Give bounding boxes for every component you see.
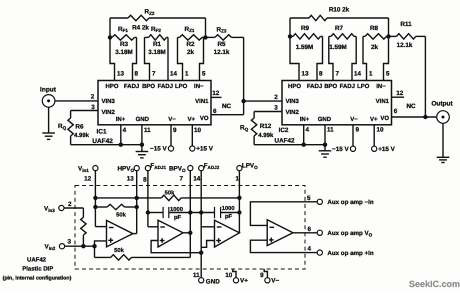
- terminal LPVO pin 1: [237, 166, 242, 171]
- terminal -15V IC1: [168, 146, 173, 151]
- wire internal resistor to Vin2 node: [82, 235, 84, 246]
- resistor R10 2k top feedback: [290, 17, 309, 19]
- svg-text:V+: V+: [370, 116, 378, 123]
- ground output: [437, 156, 450, 158]
- wire R10 loop left vertical: [289, 18, 291, 36]
- node Vin1-A1 feedback junction: [93, 205, 97, 209]
- minus input A4: [270, 226, 275, 228]
- terminal aux minus in pin 5: [317, 199, 322, 204]
- svg-text:4: 4: [306, 126, 310, 133]
- wire junction to IC2 VIN3: [244, 100, 282, 102]
- resistor RZ2 (R4 2k) top feedback wire: [110, 17, 128, 19]
- svg-text:pF: pF: [225, 214, 233, 220]
- ground IC2: [319, 150, 332, 152]
- minus input A1: [109, 227, 114, 229]
- node GND junction op2+: [199, 251, 203, 255]
- wire A2 output stub: [183, 232, 190, 234]
- svg-text:V+: V+: [187, 116, 195, 123]
- svg-text:V+: V+: [240, 277, 248, 284]
- svg-text:Aux op amp −In: Aux op amp −In: [327, 199, 373, 206]
- junction pin 11 rail IC2: [323, 143, 327, 147]
- wire op1 plus to bottom 50k: [94, 246, 96, 257]
- resistor RF2 (R1 3.18M) pins 7-14: [145, 36, 149, 38]
- op-amp A3: [215, 220, 240, 247]
- svg-text:IC2: IC2: [279, 127, 289, 134]
- connector Input BNC: [42, 95, 55, 108]
- op-amp A4 aux: [267, 220, 293, 246]
- wire R6 bottom to IC1 ground rail: [70, 136, 72, 145]
- svg-text:R12: R12: [260, 123, 272, 130]
- terminal +15V IC2: [372, 146, 377, 151]
- resistor internal Vin3: [81, 217, 86, 235]
- wire R10 right vertical: [388, 18, 390, 36]
- node op1 plus junction: [92, 244, 96, 248]
- svg-text:R5: R5: [217, 41, 226, 48]
- svg-text:2k: 2k: [187, 49, 195, 56]
- resistor R9 1.59M pins 13-8 IC2: [290, 35, 293, 37]
- svg-text:R4 2k: R4 2k: [132, 24, 149, 31]
- svg-text:Aux op amp VO: Aux op amp VO: [327, 230, 372, 237]
- plus input A2: [160, 240, 165, 242]
- svg-text:IN−: IN−: [194, 83, 204, 90]
- plus input A3: [216, 240, 221, 242]
- wire pin 11 stub IC2: [324, 125, 326, 145]
- svg-text:1000: 1000: [222, 205, 235, 212]
- svg-text:VIN1: VIN1: [195, 98, 209, 105]
- wire pin 3 to RQ resistor: [71, 110, 98, 112]
- svg-text:pF: pF: [174, 215, 182, 221]
- wire FADJ1 vertical pin 8: [147, 170, 149, 226]
- wire HPVO vertical pin 13: [136, 170, 138, 233]
- svg-text:1000: 1000: [170, 206, 183, 213]
- svg-text:6: 6: [394, 108, 398, 115]
- wire aux output pin 6: [293, 232, 318, 234]
- svg-text:FADJ: FADJ: [124, 83, 139, 90]
- svg-text:11: 11: [193, 272, 200, 279]
- resistor R7 1.59M pins 7-14 IC2: [329, 35, 331, 37]
- svg-text:2: 2: [274, 94, 278, 101]
- node Vin3 resistor junction: [81, 244, 85, 248]
- svg-text:IC1: IC1: [96, 128, 107, 135]
- svg-text:SeekIC.com: SeekIC.com: [409, 279, 460, 289]
- wire VO IC2 to output: [392, 116, 437, 118]
- wire R8 left leg to pin 1 IC2: [363, 36, 367, 80]
- svg-text:GND: GND: [136, 116, 150, 123]
- svg-text:8: 8: [135, 71, 139, 78]
- wire R7 right leg to pin 14 IC2: [352, 36, 356, 80]
- svg-text:IN+: IN+: [116, 116, 126, 123]
- svg-text:HPO: HPO: [288, 83, 301, 90]
- svg-text:10: 10: [377, 126, 385, 133]
- wire pin 9 stub IC2: [352, 125, 354, 147]
- resistor R8 2k pins 1-5 IC2: [363, 35, 365, 37]
- terminal -15V IC2: [350, 146, 355, 151]
- ground input: [42, 132, 55, 134]
- svg-text:+15 V: +15 V: [378, 146, 395, 153]
- node D junction R8/R10/R11: [386, 34, 390, 38]
- wire rail to ground IC2: [324, 145, 326, 151]
- svg-text:BPO: BPO: [142, 83, 155, 90]
- svg-text:4: 4: [307, 245, 311, 252]
- wire RF2 left leg to pin 7: [145, 37, 150, 80]
- svg-text:IN+: IN+: [300, 116, 310, 123]
- svg-text:50k: 50k: [114, 247, 124, 254]
- svg-text:50k: 50k: [165, 189, 175, 196]
- svg-text:7: 7: [336, 71, 340, 78]
- junction pin 11 rail: [140, 143, 144, 147]
- svg-text:FADJ: FADJ: [307, 83, 322, 90]
- resistor 50k row A2 input: [95, 197, 161, 199]
- svg-text:12: 12: [84, 176, 92, 183]
- terminal FADJ1 pin 8: [145, 166, 150, 171]
- resistor R12 4.99k (RQ) IC2: [251, 118, 256, 136]
- capacitor 1000pF A3: [214, 207, 216, 218]
- wire rail to ground IC1: [141, 145, 143, 152]
- svg-text:14: 14: [354, 71, 362, 78]
- svg-text:9: 9: [173, 127, 177, 134]
- wire pin 10 stub IC1: [191, 125, 193, 147]
- svg-text:3: 3: [68, 239, 72, 246]
- wire pin 4 stub IC1: [120, 125, 122, 145]
- svg-text:12: 12: [396, 90, 404, 97]
- svg-text:9: 9: [356, 126, 360, 133]
- svg-text:VIN2: VIN2: [286, 109, 300, 116]
- svg-text:Input: Input: [40, 86, 57, 93]
- wire pin 4 stub IC2: [303, 125, 305, 145]
- wire LPVO vertical pin 1: [238, 170, 240, 232]
- wire A2 plus to GND line: [151, 241, 201, 253]
- svg-text:12.1k: 12.1k: [397, 42, 413, 49]
- wire aux minus input pin 5: [250, 202, 317, 226]
- svg-text:V−: V−: [350, 116, 358, 123]
- resistor RZ1 (R2 2k) pins 1-5: [178, 36, 180, 38]
- wire R12 bottom to IC2 rail: [253, 136, 255, 145]
- wire V+ pin 10 stub: [233, 269, 236, 278]
- wire pin 10 stub IC2: [373, 125, 375, 147]
- wire cap2 row: [190, 212, 214, 214]
- wire R9 left leg to pin 13 IC2: [290, 36, 299, 80]
- node C junction R9/R10/pin13 IC2: [288, 34, 292, 38]
- wire FADJ2 vertical pin 14: [200, 170, 202, 278]
- svg-text:6: 6: [213, 108, 217, 115]
- svg-text:50k: 50k: [116, 212, 126, 219]
- junction pin 4 rail: [119, 143, 123, 147]
- svg-text:VIN3: VIN3: [102, 98, 116, 105]
- svg-text:1.59M: 1.59M: [296, 44, 314, 51]
- plus input A1: [108, 239, 113, 241]
- svg-text:BPO: BPO: [324, 83, 337, 90]
- svg-text:8: 8: [143, 176, 147, 183]
- terminal V+ pin 10: [233, 278, 238, 283]
- terminal FADJ2 pin 14: [199, 166, 204, 171]
- minus input A2: [160, 226, 165, 228]
- terminal aux VO pin 6: [317, 230, 322, 235]
- wire RZ1 left leg to pin 1: [178, 37, 183, 80]
- wire Vin2 to op1 noninverting node: [64, 245, 94, 247]
- svg-text:GND: GND: [206, 278, 220, 285]
- wire A1 output to HP line: [133, 233, 137, 235]
- svg-text:FADJ: FADJ: [340, 83, 355, 90]
- wire R8 right leg to pin 5 IC2: [384, 36, 389, 80]
- node BP cap1 junction: [188, 210, 192, 214]
- wire input to ground: [48, 107, 50, 133]
- svg-text:(pin, internal configuration): (pin, internal configuration): [3, 276, 72, 282]
- svg-text:R1: R1: [153, 41, 162, 48]
- node BP output junction: [188, 231, 192, 235]
- node LP cap2 junction: [237, 210, 241, 214]
- capacitor 1000pF A2: [162, 207, 164, 218]
- wire pin 12 NC stub IC1: [211, 96, 222, 98]
- svg-text:R9: R9: [301, 25, 310, 32]
- node VO1 junction: [241, 99, 245, 103]
- svg-text:3.18M: 3.18M: [148, 49, 166, 56]
- wire RF2 right leg to pin 14: [167, 37, 169, 80]
- svg-text:13: 13: [127, 176, 135, 183]
- svg-text:2k: 2k: [371, 44, 379, 51]
- svg-text:14: 14: [170, 71, 178, 78]
- svg-text:R2: R2: [186, 41, 195, 48]
- wire aux plus input pin 4: [250, 240, 317, 252]
- svg-text:10: 10: [194, 127, 202, 134]
- resistor R6 4.99k (RQ) IC1: [68, 118, 73, 136]
- svg-text:3.18M: 3.18M: [115, 49, 133, 56]
- svg-text:R8: R8: [370, 25, 379, 32]
- op-amp A2: [158, 220, 183, 247]
- svg-text:3: 3: [91, 104, 95, 111]
- svg-text:4: 4: [123, 127, 127, 134]
- svg-text:VO: VO: [380, 115, 389, 122]
- svg-text:V−: V−: [271, 277, 279, 284]
- svg-text:−15 V: −15 V: [332, 146, 349, 153]
- svg-text:Output: Output: [431, 101, 453, 108]
- svg-text:R10 2k: R10 2k: [329, 7, 350, 14]
- svg-text:+15 V: +15 V: [196, 146, 213, 153]
- svg-text:13: 13: [302, 71, 310, 78]
- wire V- pin 9 stub: [264, 269, 267, 278]
- wire GND pin 11: [199, 278, 204, 283]
- svg-text:VIN1: VIN1: [376, 98, 390, 105]
- svg-text:UAF42: UAF42: [27, 256, 47, 263]
- node FADJ2 cap junction: [199, 210, 203, 214]
- svg-text:FADJ: FADJ: [158, 83, 173, 90]
- wire BPVO vertical pin 7: [189, 170, 191, 257]
- svg-text:Aux op amp +In: Aux op amp +In: [327, 250, 373, 257]
- wire pin 3 IC2 to R12: [254, 111, 282, 113]
- svg-text:NC: NC: [406, 103, 416, 110]
- wire VO IC1 to junction: [211, 114, 244, 116]
- dashed UAF42 package outline: [75, 186, 305, 270]
- wire R9 right leg to pin 8 IC2: [317, 36, 323, 80]
- svg-text:12.1k: 12.1k: [214, 49, 230, 56]
- wire RZ3 down to VO node: [243, 37, 245, 101]
- svg-text:1: 1: [185, 71, 189, 78]
- svg-text:14: 14: [193, 176, 201, 183]
- op-amp IC2 UAF42 box: [282, 81, 392, 125]
- plus input A4: [269, 239, 274, 241]
- svg-text:LPO: LPO: [357, 83, 370, 90]
- svg-text:VO: VO: [200, 115, 209, 122]
- wire op1 plus jog: [95, 241, 107, 246]
- svg-text:R11: R11: [400, 21, 412, 28]
- svg-text:5: 5: [202, 71, 206, 78]
- wire output to ground: [442, 123, 444, 157]
- resistor RZ3 (R5 12.1k) feedback to VO: [206, 36, 215, 38]
- svg-text:2: 2: [91, 93, 95, 100]
- svg-text:12: 12: [212, 90, 220, 97]
- op-amp A1: [107, 220, 133, 247]
- svg-text:5: 5: [307, 195, 311, 202]
- node Vin1-50k junction: [93, 196, 97, 200]
- terminal +15V IC1: [190, 146, 195, 151]
- wire RZ2 right vertical: [205, 18, 207, 37]
- svg-text:2: 2: [68, 201, 72, 208]
- svg-text:NC: NC: [222, 103, 232, 110]
- connector Output BNC: [437, 111, 450, 124]
- node LP-50k row junction: [237, 196, 241, 200]
- wire A3 plus to GND line: [201, 241, 214, 248]
- svg-text:7: 7: [179, 176, 183, 183]
- svg-text:1: 1: [369, 71, 373, 78]
- node HP-A1 feedback junction: [135, 205, 139, 209]
- svg-text:HPO: HPO: [105, 83, 118, 90]
- wire Vin1 vertical pin 12: [94, 170, 96, 226]
- svg-text:6: 6: [307, 226, 311, 233]
- svg-text:10: 10: [225, 272, 233, 279]
- wire input to pin 2: [55, 100, 98, 102]
- wire pin 9 stub IC1: [170, 125, 172, 147]
- junction pin 4 rail IC2: [302, 143, 306, 147]
- wire cap1 row: [148, 212, 163, 214]
- wire Vin3 to internal resistor: [64, 207, 84, 209]
- wire RZ1 right leg to pin 5: [200, 37, 204, 80]
- resistor 50k BP feedback to A1 plus: [95, 256, 111, 258]
- svg-text:UAF42: UAF42: [275, 137, 295, 144]
- svg-text:11: 11: [327, 126, 334, 133]
- terminal aux plus in pin 4: [317, 250, 322, 255]
- resistor RF1 (R3 3.18M) pins 13-8: [110, 36, 112, 38]
- svg-text:VIN2: VIN2: [102, 109, 116, 116]
- svg-text:R6: R6: [75, 123, 84, 130]
- svg-text:IN−: IN−: [376, 83, 386, 90]
- node FADJ1 cap junction: [146, 210, 150, 214]
- svg-text:VIN3: VIN3: [286, 98, 300, 105]
- terminal V- pin 9: [265, 278, 270, 283]
- wire RF1 left leg to pin 13: [110, 37, 115, 80]
- svg-text:UAF42: UAF42: [92, 138, 113, 145]
- node output junction: [423, 115, 427, 119]
- wire RF1 right leg to pin 8: [133, 37, 137, 80]
- svg-text:9: 9: [260, 272, 264, 279]
- node HP-50k row junction: [135, 196, 139, 200]
- svg-text:Plastic DIP: Plastic DIP: [22, 266, 53, 273]
- svg-text:R3: R3: [120, 41, 129, 48]
- svg-text:13: 13: [117, 71, 125, 78]
- svg-text:4.99k: 4.99k: [74, 132, 90, 139]
- svg-text:GND: GND: [318, 116, 332, 123]
- wire R7 left leg to pin 7 IC2: [329, 36, 333, 80]
- resistor 50k A1 feedback: [95, 206, 107, 208]
- svg-text:7: 7: [152, 71, 156, 78]
- node A junction RF1/RZ2/pin13: [108, 35, 112, 39]
- op-amp IC1 UAF42 box: [98, 81, 211, 125]
- svg-text:−15 V: −15 V: [150, 146, 167, 153]
- svg-text:LPO: LPO: [175, 83, 188, 90]
- wire pin 12 NC stub IC2: [392, 96, 405, 98]
- wire RZ2 top loop left vertical: [109, 18, 111, 37]
- svg-text:V−: V−: [168, 116, 176, 123]
- svg-text:3: 3: [274, 104, 278, 111]
- wire R11 down to output node: [424, 36, 426, 117]
- node B junction RZ1/RZ2/RZ3: [203, 35, 207, 39]
- ground IC1: [136, 151, 149, 153]
- minus input A3: [217, 226, 222, 228]
- svg-text:5: 5: [386, 71, 390, 78]
- resistor R11 12.1k feedback IC2: [389, 35, 397, 37]
- svg-text:8: 8: [319, 71, 323, 78]
- svg-text:4.99k: 4.99k: [258, 132, 274, 139]
- svg-text:11: 11: [144, 127, 151, 134]
- svg-text:R7: R7: [335, 25, 344, 32]
- wire pin 11 stub IC1: [141, 125, 143, 145]
- svg-text:1.59M: 1.59M: [329, 44, 347, 51]
